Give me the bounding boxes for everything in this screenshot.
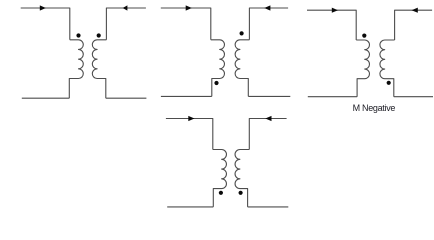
inductor: T3 primary winding	[356, 40, 369, 97]
transformer T2	[161, 5, 290, 96]
polarity dot (T1 secondary)	[97, 33, 101, 37]
wire: T1 bottom-right lead	[106, 97, 147, 99]
wire: T4 top-left lead	[166, 119, 213, 150]
inductor: T4 primary winding	[213, 150, 227, 207]
inductor: T4 secondary winding	[235, 150, 249, 207]
wire: T3 bottom-left lead	[308, 96, 357, 98]
polarity dot (T1 primary)	[76, 33, 80, 37]
transformer T3	[307, 8, 433, 97]
current arrow (into T2 secondary, pointing left)	[264, 5, 270, 10]
transformer T1	[21, 5, 147, 98]
wire: T4 top-right lead	[249, 119, 286, 150]
polarity dot (T4 secondary)	[239, 191, 243, 195]
wire: T2 top-right lead	[249, 8, 288, 40]
current arrow (into T1 primary, pointing right)	[40, 5, 46, 10]
wire: T2 top-left lead	[161, 8, 211, 40]
polarity dot (T4 primary)	[219, 191, 223, 195]
wire: T4 bottom-right lead	[248, 206, 289, 208]
polarity dot (T3 secondary)	[387, 81, 391, 85]
wire: T3 top-left lead	[307, 10, 356, 40]
transformer T4	[166, 116, 288, 207]
wire: T2 bottom-left lead	[161, 95, 212, 97]
current arrow (into T1 secondary, pointing left)	[123, 5, 128, 10]
wire: T4 bottom-left lead	[167, 206, 213, 208]
wire: T3 bottom-right lead	[394, 96, 433, 98]
current arrow (into T3 secondary, pointing left)	[412, 8, 418, 13]
inductor: T3 secondary winding	[380, 40, 395, 97]
current arrow (into T2 primary, pointing right)	[186, 5, 192, 10]
wire: T1 bottom-left lead	[22, 97, 70, 99]
svg-text:M Negative: M Negative	[353, 103, 396, 113]
wire: T1 top-right lead	[106, 8, 145, 40]
wire: T2 bottom-right lead	[248, 95, 290, 97]
inductor: T2 secondary winding	[235, 40, 249, 97]
polarity dot (T3 primary)	[362, 34, 366, 38]
polarity dot (T2 primary)	[214, 81, 218, 85]
polarity dot (T2 secondary)	[240, 31, 244, 35]
inductor: T2 primary winding	[211, 40, 225, 97]
current arrow (into T3 primary, pointing right)	[332, 8, 338, 13]
inductor: T1 secondary winding	[92, 40, 106, 98]
inductor: T1 primary winding	[69, 40, 83, 98]
current arrow (into T4 secondary, pointing left)	[265, 116, 271, 121]
wire: T3 top-right lead	[395, 10, 433, 40]
current arrow (into T4 primary, pointing right)	[188, 116, 194, 121]
wire: T1 top-left lead	[21, 8, 70, 40]
